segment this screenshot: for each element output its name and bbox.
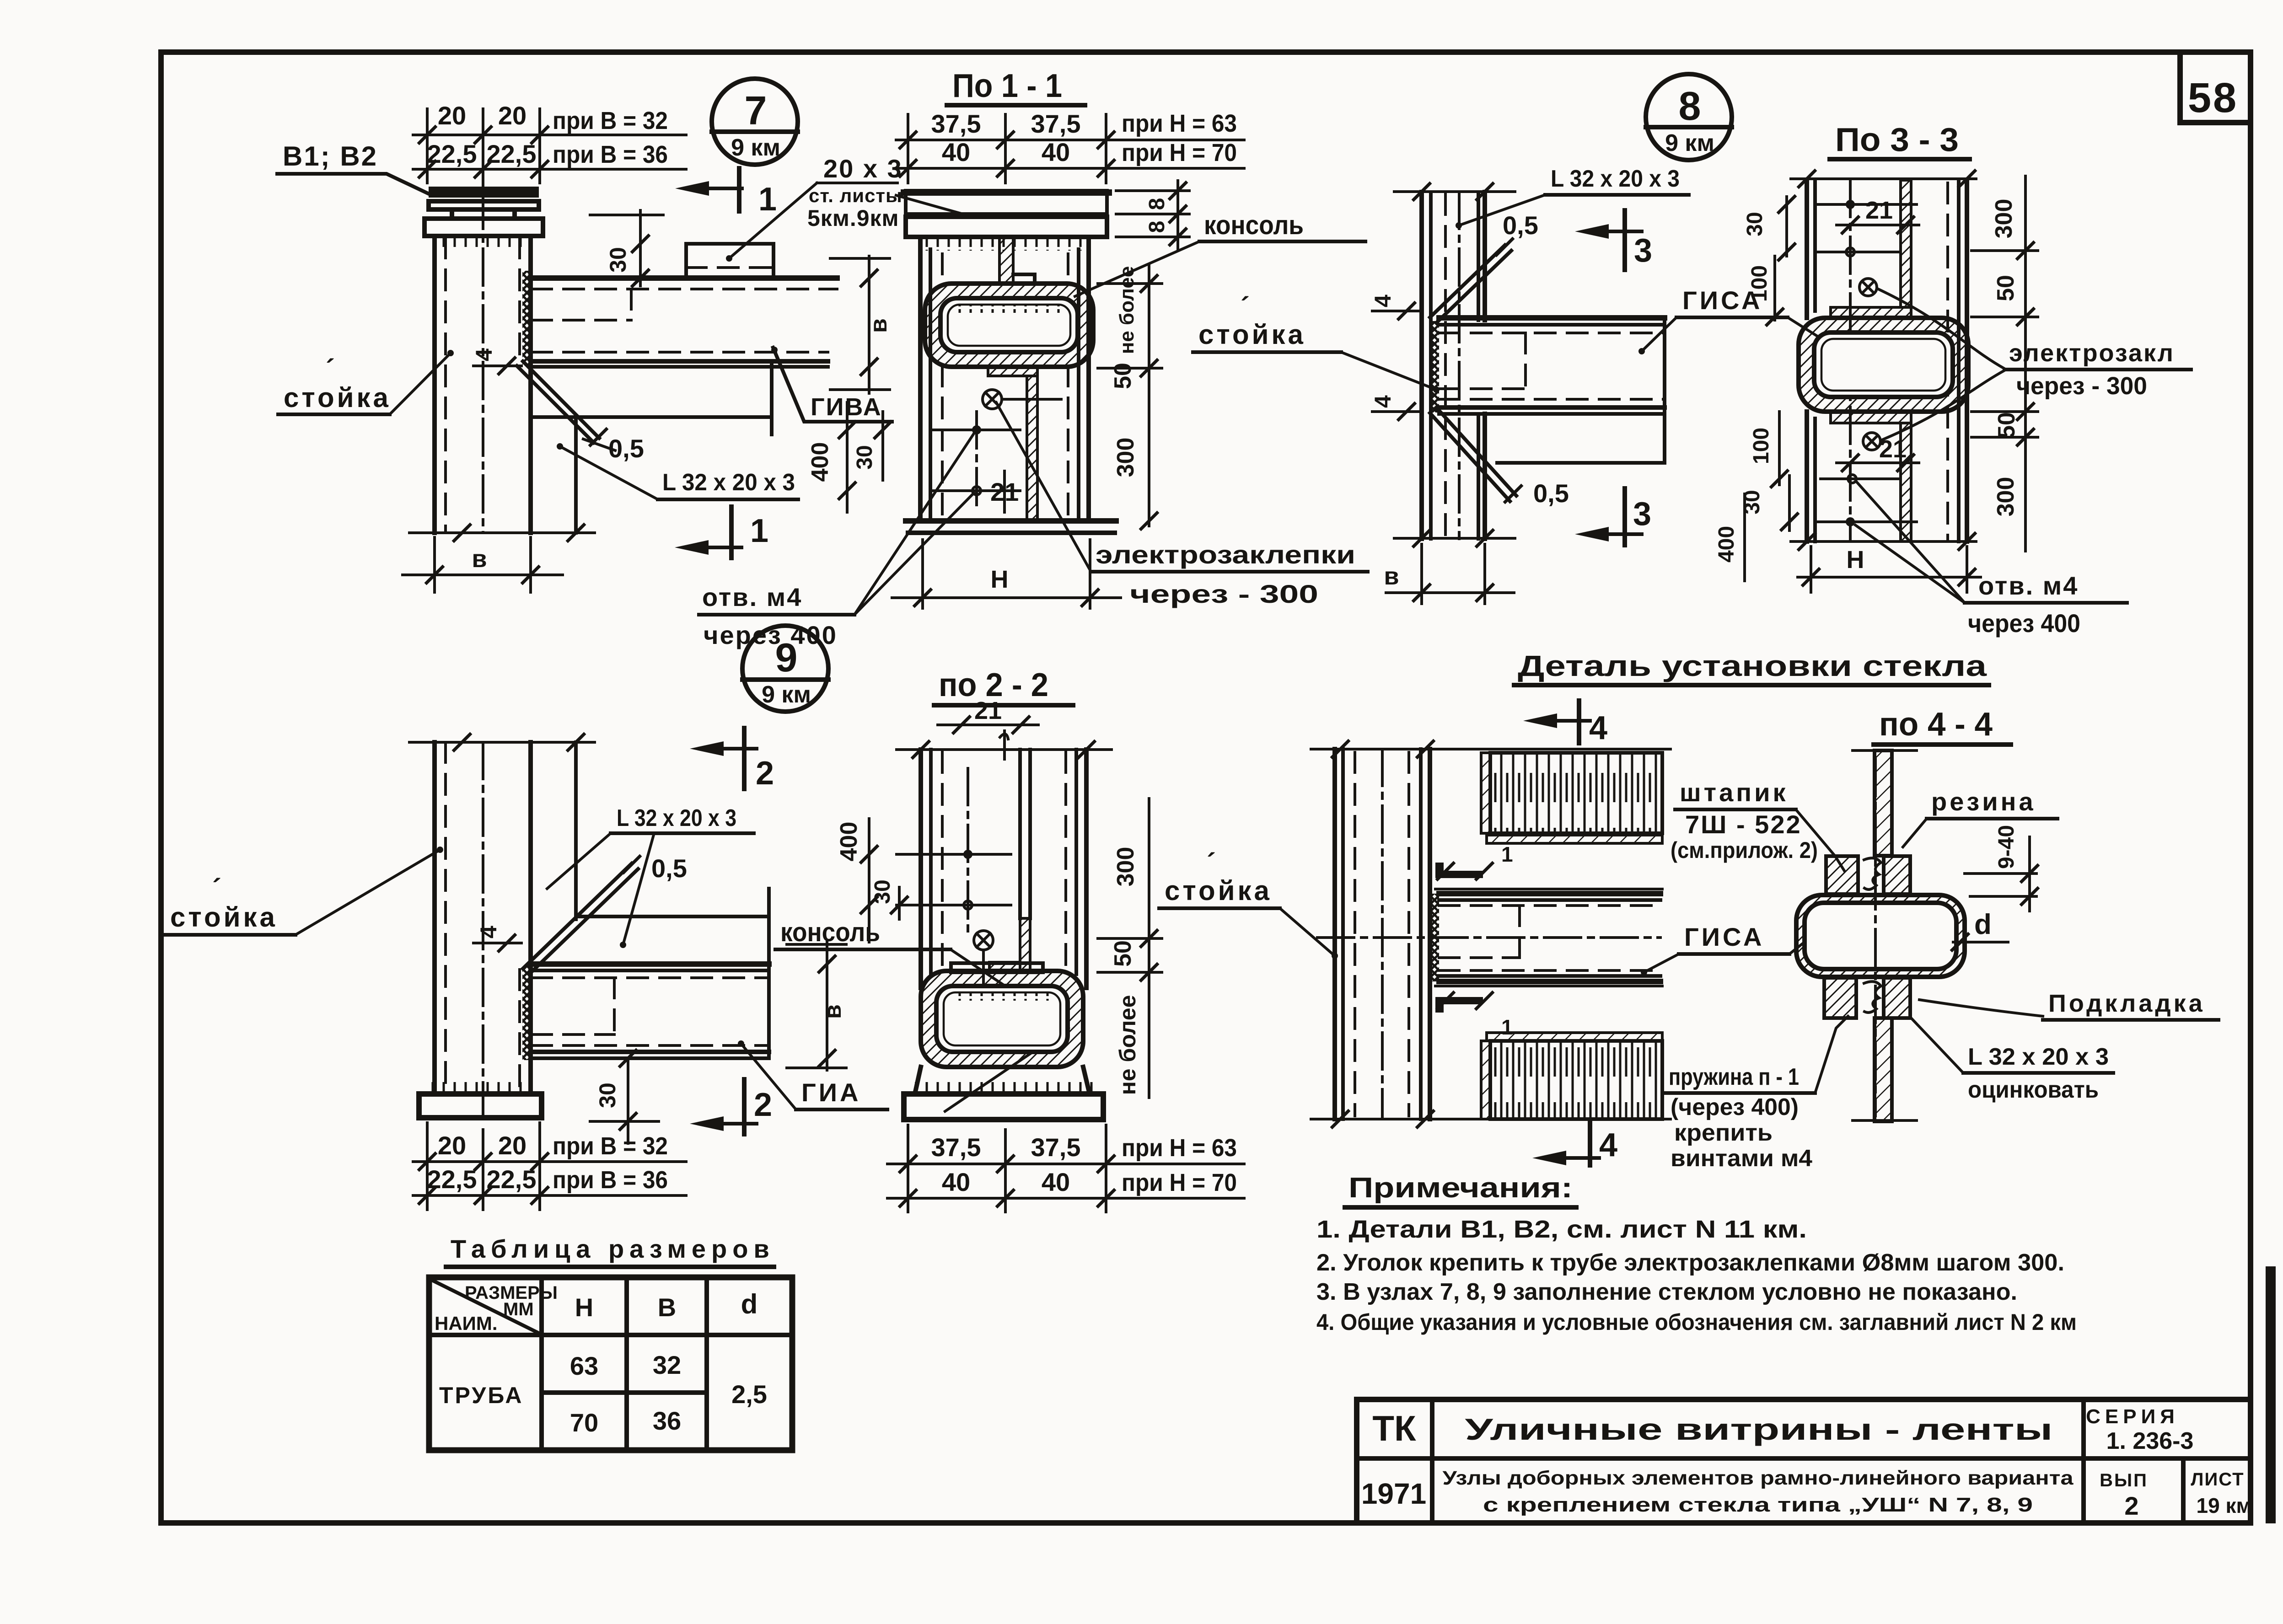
hanger strap (консоль): [999, 238, 1035, 284]
weld zigzag node 8: [1430, 321, 1439, 413]
top break По 2-2: [897, 740, 1112, 759]
svg-text:0,5: 0,5: [1503, 211, 1538, 240]
svg-text:1. Детали В1, В2, см. лист: 1. Детали В1, В2, см. лист N 11 км.: [1316, 1216, 1807, 1243]
bottom break По 3-3: [1791, 532, 1976, 551]
svg-text:при Н = 70: при Н = 70: [1122, 1169, 1237, 1196]
svg-text:20: 20: [498, 1131, 526, 1160]
section mark 4 top: [1523, 701, 1607, 746]
svg-text:через 400: через 400: [1968, 609, 2080, 638]
title По 2-2: [934, 667, 1073, 705]
svg-text:Н: Н: [1847, 546, 1864, 573]
svg-text:9: 9: [775, 635, 798, 680]
svg-text:ГИСА: ГИСА: [1684, 922, 1764, 951]
L-angle below tube: [1831, 412, 1911, 541]
svg-text:100: 100: [1747, 265, 1772, 302]
svg-text:0,5: 0,5: [651, 854, 687, 883]
dim 20/20 при В=32 below node 9: [413, 1131, 686, 1171]
svg-text:3: 3: [1634, 232, 1652, 269]
table body texts: [439, 1351, 767, 1437]
dim 37,5/37,5 при Н=63: [896, 109, 1244, 149]
svg-text:L 32 х 20 х 3: L 32 х 20 х 3: [617, 805, 736, 831]
штапик strip top: [1487, 835, 1662, 843]
svg-text:НАИМ.: НАИМ.: [435, 1313, 498, 1334]
bottom break line glass detail: [1311, 1110, 1671, 1128]
svg-text:9 км: 9 км: [731, 134, 780, 161]
svg-text:40: 40: [1042, 138, 1070, 166]
svg-text:при Н = 63: при Н = 63: [1122, 110, 1237, 137]
svg-text:2: 2: [2124, 1491, 2138, 1520]
svg-text:20: 20: [438, 101, 466, 130]
svg-text:30: 30: [605, 247, 631, 273]
svg-text:´: ´: [212, 874, 221, 904]
svg-text:20 х 3: 20 х 3: [823, 154, 903, 183]
svg-text:400: 400: [836, 822, 862, 862]
weld 0,5 node 9: [523, 854, 687, 974]
svg-text:при В = 36: при В = 36: [553, 1166, 668, 1194]
svg-text:21: 21: [974, 697, 1002, 724]
svg-text:22,5: 22,5: [427, 139, 477, 168]
svg-text:не более: не более: [1116, 266, 1138, 354]
svg-text:1. 236-3: 1. 236-3: [2106, 1428, 2194, 1454]
dimension 20/20 при В=32: [413, 101, 686, 144]
svg-text:3. В узлах 7, 8, 9 заполне: 3. В узлах 7, 8, 9 заполнение стеклом ус…: [1316, 1279, 2017, 1305]
svg-text:По 3 - 3: По 3 - 3: [1835, 122, 1959, 158]
section mark 2 bottom: [690, 1079, 772, 1134]
svg-text:Узлы доборных элементов рамно-: Узлы доборных элементов рамно-линейного …: [1443, 1467, 2074, 1489]
svg-text:2: 2: [754, 1087, 772, 1123]
label В1; В2: [277, 141, 430, 194]
svg-text:40: 40: [942, 1168, 970, 1196]
right dims 300 50 не более По 2-2: [1098, 799, 1162, 1098]
node 8 beam: [1439, 318, 1665, 463]
left dims 400 30 По 2-2: [836, 819, 908, 942]
L-angle above tube: [1831, 180, 1911, 318]
comb weld ticks under cap: [432, 237, 537, 249]
right dim column 300/50/50/300: [1971, 176, 2038, 551]
svg-text:винтами м4: винтами м4: [1671, 1145, 1812, 1172]
svg-text:´: ´: [326, 354, 335, 385]
dim 30 (sheet height): [590, 210, 663, 287]
label L32x20x3 node 8: [1456, 166, 1689, 229]
base bar: [906, 521, 1116, 533]
dim B below column: [403, 537, 563, 592]
svg-text:d: d: [741, 1289, 758, 1319]
svg-text:через - 300: через - 300: [1130, 579, 1318, 608]
svg-text:Подкладка: Подкладка: [2048, 990, 2205, 1017]
left dims 400 / 30: [807, 402, 892, 512]
lower frame angle: [1435, 986, 1662, 1039]
svg-text:отв. м4: отв. м4: [702, 583, 802, 611]
svg-text:20: 20: [498, 101, 526, 130]
label подкладка: [1919, 990, 2219, 1020]
column section walls По 3-3: [1807, 180, 1967, 541]
svg-text:d: d: [1974, 909, 1992, 940]
svg-text:50: 50: [1993, 412, 2020, 439]
section mark 4 bottom: [1532, 1120, 1617, 1165]
svg-text:22,5: 22,5: [487, 1165, 537, 1194]
svg-text:не более: не более: [1115, 995, 1140, 1095]
dim 21 top: [1837, 197, 1919, 234]
view title: [1514, 649, 1989, 685]
svg-text:30: 30: [595, 1083, 620, 1108]
beam tube cross-section (rounded): [925, 284, 1093, 367]
holes m4 on centerline: [933, 412, 1020, 512]
svg-text:19 км: 19 км: [2197, 1494, 2252, 1517]
svg-text:8: 8: [1679, 83, 1701, 129]
column flare and base По 2-2: [904, 1067, 1103, 1120]
page number box 58: [2180, 54, 2249, 123]
dim Н below: [892, 540, 1121, 608]
svg-text:консоль: консоль: [1204, 210, 1304, 240]
top plates (ст. листы): [904, 191, 1109, 237]
svg-text:3: 3: [1633, 496, 1651, 532]
bottom break line: [409, 524, 595, 542]
svg-text:300: 300: [1112, 438, 1139, 477]
svg-text:37,5: 37,5: [931, 1133, 981, 1162]
svg-text:21: 21: [1865, 197, 1893, 224]
dim 8/8 right of plates: [1116, 181, 1189, 249]
svg-text:22,5: 22,5: [487, 139, 537, 168]
svg-text:2: 2: [756, 755, 774, 792]
weld 0,5 with seam: [517, 361, 644, 463]
svg-text:300: 300: [1991, 199, 2017, 239]
svg-text:Уличные витрины - ленты: Уличные витрины - ленты: [1465, 1412, 2053, 1446]
label электрозакл через-300: [1878, 289, 2191, 440]
svg-text:в: в: [472, 545, 487, 573]
node 9 bubble: [742, 626, 828, 712]
section mark 3 bottom: [1575, 488, 1651, 545]
label штапик 7Ш-522: [1671, 778, 1844, 871]
svg-text:через - 300: через - 300: [2016, 372, 2147, 400]
svg-text:L 32 х 20 х 3: L 32 х 20 х 3: [1551, 166, 1680, 192]
label пружина П-1: [1665, 1016, 1848, 1172]
glass strip top: [1853, 750, 1917, 856]
label стойка (for node 8): [1193, 292, 1440, 393]
beam (top chord and lines): [532, 278, 837, 533]
upper frame angle: [1435, 842, 1662, 889]
comb ticks under column head: [924, 238, 1086, 251]
label 20x3 ст.листы 5км.9км: [726, 154, 963, 262]
weld size 4 marks node 8: [1370, 295, 1423, 421]
dim 30 node 9: [590, 1049, 659, 1143]
svg-text:9 км: 9 км: [762, 681, 811, 708]
dim B below node 8: [1384, 544, 1514, 604]
right dims 50 не более / 300: [1098, 265, 1162, 530]
column of node 8: [1422, 192, 1485, 539]
svg-text:В: В: [658, 1293, 676, 1322]
svg-text:консоль: консоль: [780, 917, 880, 947]
svg-text:1: 1: [750, 513, 768, 549]
L-angle inside shaft: [988, 366, 1037, 521]
dim в at beam end node 9: [787, 942, 846, 1070]
svg-text:ТРУБА: ТРУБА: [439, 1383, 523, 1408]
svg-text:400: 400: [807, 442, 833, 482]
svg-text:40: 40: [1042, 1168, 1070, 1196]
weld 0,5 top node 8: [1430, 211, 1538, 323]
svg-text:при В = 32: при В = 32: [553, 107, 668, 134]
label L32x20x3 node 9: [547, 805, 754, 948]
node 7 bubble: [712, 79, 798, 165]
label резина: [1903, 787, 2057, 847]
dim 21 bottom: [1837, 435, 1919, 472]
svg-text:4: 4: [476, 926, 501, 938]
cover plate above tube: [951, 963, 1043, 972]
svg-text:Примечания:: Примечания:: [1348, 1172, 1573, 1204]
svg-text:ВЫП: ВЫП: [2100, 1470, 2148, 1490]
rivet symbol: [983, 390, 1061, 409]
svg-text:L 32 х 20 х 3: L 32 х 20 х 3: [662, 469, 795, 496]
svg-text:1: 1: [1501, 842, 1513, 866]
svg-text:4: 4: [1599, 1127, 1617, 1163]
svg-text:стойка: стойка: [170, 902, 278, 933]
svg-text:4: 4: [471, 348, 497, 361]
label стойка: [278, 350, 454, 414]
svg-text:(через 400): (через 400): [1671, 1094, 1799, 1120]
svg-text:ЛИСТ: ЛИСТ: [2191, 1469, 2244, 1490]
svg-text:Деталь установки стекла: Деталь установки стекла: [1518, 649, 1987, 682]
svg-text:63: 63: [570, 1351, 598, 1380]
beam node 9: [532, 889, 769, 1058]
svg-text:стойка: стойка: [284, 382, 391, 413]
svg-text:20: 20: [438, 1131, 466, 1160]
top break По 3-3: [1791, 170, 1976, 188]
svg-text:По 1 - 1: По 1 - 1: [952, 68, 1062, 104]
svg-text:50: 50: [1110, 940, 1136, 967]
label отв. м4 через 400: [699, 434, 974, 649]
dim 40/40 при Н=70 below По 2-2: [887, 1125, 1244, 1212]
svg-text:при Н = 70: при Н = 70: [1122, 139, 1237, 166]
svg-text:4: 4: [1370, 295, 1396, 307]
node 8 bubble: [1646, 74, 1732, 160]
centerline по 4-4: [1874, 759, 1877, 1116]
section mark 3 top: [1575, 210, 1652, 270]
svg-text:50: 50: [1993, 275, 2019, 301]
svg-text:´: ´: [1207, 848, 1216, 879]
bottom cap plate node 9: [419, 1094, 542, 1118]
svg-text:в: в: [820, 1004, 846, 1019]
svg-text:0,5: 0,5: [608, 434, 644, 463]
svg-text:32: 32: [653, 1351, 681, 1379]
cap plates В1 В2: [424, 187, 543, 236]
weld zigzag node 9: [522, 966, 532, 1060]
dim 21 top of По 2-2: [938, 697, 1038, 759]
svg-text:при Н = 63: при Н = 63: [1122, 1134, 1237, 1162]
svg-text:Н: Н: [575, 1293, 593, 1322]
top break line node 9: [409, 733, 595, 751]
title block frame: [1357, 1399, 2251, 1523]
svg-text:4. Общие указания и условн: 4. Общие указания и условные обозначения…: [1316, 1309, 2077, 1335]
label стойка (for glass detail): [1159, 848, 1338, 959]
dim Н below По3-3: [1798, 546, 1981, 592]
rivet circles: [1859, 279, 1880, 450]
svg-text:37,5: 37,5: [1031, 1133, 1081, 1162]
weld size 4 mark node 9: [473, 926, 521, 952]
label ГИВА: [771, 347, 892, 422]
svg-text:400: 400: [1714, 526, 1739, 563]
top break line glass detail: [1311, 740, 1671, 758]
label ГИА node 9: [738, 1040, 887, 1109]
dim 9-40: [1965, 825, 2039, 911]
weld 0,5 bottom node 8: [1430, 407, 1569, 508]
title По 1-1: [947, 68, 1085, 105]
svg-text:4: 4: [1589, 710, 1607, 746]
column section walls По 2-2: [921, 750, 1086, 988]
svg-text:5км.9км: 5км.9км: [807, 205, 899, 231]
svg-text:36: 36: [653, 1406, 681, 1435]
svg-text:отв. м4: отв. м4: [1978, 571, 2079, 600]
section mark 2 top: [690, 728, 774, 792]
svg-text:300: 300: [1993, 477, 2019, 517]
label консоль node 9: [775, 917, 1068, 1111]
steel sheet 20x3 on beam: [686, 244, 774, 278]
svg-text:58: 58: [2188, 75, 2238, 121]
svg-text:ТК: ТК: [1372, 1408, 1416, 1448]
svg-text:9-40: 9-40: [1994, 825, 2019, 869]
label L32x20x3: [557, 443, 798, 499]
title По 3-3: [1830, 122, 1970, 159]
svg-text:Н: Н: [991, 566, 1009, 593]
central beam band in plan: [1317, 894, 1660, 981]
tube cross-section По 2-2: [921, 971, 1083, 1067]
label отв. м4 через 400 По3-3: [1855, 482, 2127, 638]
svg-text:0,5: 0,5: [1533, 479, 1569, 508]
svg-text:4: 4: [1370, 395, 1396, 408]
label ГИСА glass detail: [1641, 922, 1818, 975]
table title: [446, 1234, 775, 1267]
svg-text:электрозакл: электрозакл: [2009, 339, 2175, 367]
svg-text:при В = 36: при В = 36: [553, 141, 668, 168]
column shaft: [435, 192, 531, 533]
top clamp (штапик + резина): [1826, 856, 1910, 894]
svg-text:СЕРИЯ: СЕРИЯ: [2086, 1405, 2179, 1428]
glass strip bottom: [1853, 1018, 1917, 1121]
svg-text:37,5: 37,5: [931, 109, 981, 138]
column section walls: [920, 237, 1089, 521]
svg-text:ст. листы: ст. листы: [809, 185, 902, 206]
top break line node 8: [1394, 182, 1515, 201]
svg-text:штапик: штапик: [1680, 778, 1789, 807]
dim 22,5/22,5 при В=36 below node 9: [413, 1123, 686, 1210]
svg-text:8: 8: [1145, 221, 1169, 233]
weld zigzag column/beam: [522, 271, 532, 366]
svg-text:7Ш - 522: 7Ш - 522: [1685, 810, 1802, 839]
svg-text:пружина п - 1: пружина п - 1: [1669, 1064, 1799, 1090]
svg-text:7: 7: [745, 88, 767, 133]
holes on centerline По 3-3: [1818, 200, 1917, 526]
label L32x20x3 оцинковать: [1911, 1018, 2113, 1103]
svg-text:70: 70: [570, 1408, 598, 1437]
svg-text:2. Уголок крепить к трубе: 2. Уголок крепить к трубе электрозаклепк…: [1316, 1249, 2064, 1276]
svg-text:2,5: 2,5: [731, 1380, 767, 1409]
svg-text:Таблица размеров: Таблица размеров: [451, 1234, 775, 1263]
svg-text:резина: резина: [1931, 787, 2036, 816]
dim 37,5/37,5 при Н=63 below По 2-2: [887, 1133, 1244, 1173]
comb ticks above bottom cap: [430, 1080, 539, 1093]
label стойка node 9: [165, 847, 443, 935]
label электрозаклепки через-300: [996, 402, 1368, 608]
left dims 30 100 По3-3: [1743, 195, 1796, 326]
bottom clamp: [1824, 978, 1910, 1018]
svg-text:крепить: крепить: [1674, 1120, 1773, 1146]
svg-text:40: 40: [942, 138, 970, 166]
bottom break line node 8: [1394, 529, 1515, 547]
svg-text:´: ´: [1241, 292, 1250, 322]
label ГИСА node 8: [1638, 286, 1912, 375]
svg-text:оцинковать: оцинковать: [1968, 1077, 2099, 1103]
dimension 22,5/22,5 при В=36: [413, 109, 686, 188]
weld size 4 mark: [471, 348, 521, 375]
holes m4 По 2-2: [897, 768, 1011, 938]
svg-text:30: 30: [853, 445, 877, 469]
svg-text:с креплением стекла типа „УШ“: с креплением стекла типа „УШ“ N 7, 8, 9: [1483, 1494, 2033, 1516]
svg-text:при В = 32: при В = 32: [553, 1132, 668, 1160]
svg-text:ГИА: ГИА: [801, 1078, 861, 1107]
label консоль: [1075, 210, 1365, 296]
svg-text:электрозаклепки: электрозаклепки: [1096, 540, 1355, 569]
штапик strip bottom: [1487, 1033, 1662, 1041]
table grid: [429, 1277, 792, 1450]
title block texts: [1361, 1405, 2252, 1520]
svg-text:(см.прилож. 2): (см.прилож. 2): [1671, 837, 1818, 863]
weld zigzag glass detail: [1430, 894, 1439, 981]
dim B rotated at beam end: [830, 256, 892, 393]
svg-text:1971: 1971: [1361, 1477, 1426, 1510]
svg-text:9 км: 9 км: [1665, 130, 1714, 156]
svg-text:8: 8: [1145, 198, 1169, 210]
svg-text:37,5: 37,5: [1031, 109, 1081, 138]
svg-text:30: 30: [870, 879, 895, 904]
section mark 1 top: [675, 168, 777, 218]
glass pane band bottom: [1481, 1041, 1662, 1119]
svg-text:по 4 - 4: по 4 - 4: [1879, 706, 1993, 743]
svg-text:L 32 х 20 х 3: L 32 х 20 х 3: [1968, 1044, 2109, 1070]
svg-text:300: 300: [1112, 847, 1139, 887]
rivet По 2-2: [974, 931, 993, 1015]
svg-text:1: 1: [758, 181, 777, 218]
dim 40/40 при Н=70: [896, 114, 1244, 183]
svg-text:30: 30: [1743, 212, 1767, 236]
right sheet-edge smudge: [2266, 1271, 2276, 1518]
svg-text:стойка: стойка: [1165, 875, 1272, 906]
left dims 100 30 400 bottom По3-3: [1714, 412, 1799, 581]
svg-text:100: 100: [1749, 428, 1773, 464]
svg-text:в: в: [1384, 563, 1399, 590]
column shaft node 9: [435, 742, 576, 1125]
svg-text:22,5: 22,5: [427, 1165, 477, 1194]
section mark 1 bottom: [675, 507, 768, 558]
svg-text:в: в: [865, 318, 892, 333]
tube cross-section По 3-3: [1799, 318, 1968, 412]
glass pane band top: [1481, 753, 1662, 833]
svg-text:50: 50: [1110, 363, 1136, 389]
svg-text:В1; В2: В1; В2: [283, 141, 378, 172]
стойка column in plan: [1335, 749, 1430, 1119]
svg-text:через 400: через 400: [704, 621, 838, 649]
label d: [1951, 909, 2008, 951]
title по 4-4: [1874, 706, 2011, 745]
tube cross-section по 4-4: [1796, 895, 1965, 977]
svg-text:ММ: ММ: [503, 1299, 534, 1319]
L-angle strip По 2-2: [989, 750, 1030, 971]
svg-text:стойка: стойка: [1198, 319, 1306, 350]
table header texts: [435, 1283, 757, 1334]
